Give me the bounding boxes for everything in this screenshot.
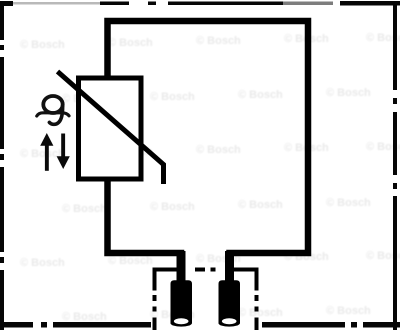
svg-text:© Bosch: © Bosch — [62, 311, 107, 323]
svg-text:© Bosch: © Bosch — [196, 144, 241, 156]
svg-text:© Bosch: © Bosch — [108, 37, 153, 49]
svg-text:© Bosch: © Bosch — [196, 35, 241, 47]
svg-text:© Bosch: © Bosch — [326, 305, 371, 317]
svg-text:© Bosch: © Bosch — [20, 257, 65, 269]
svg-text:© Bosch: © Bosch — [238, 307, 283, 319]
svg-text:© Bosch: © Bosch — [326, 87, 371, 99]
svg-text:© Bosch: © Bosch — [62, 203, 107, 215]
svg-text:© Bosch: © Bosch — [238, 89, 283, 101]
svg-text:© Bosch: © Bosch — [150, 91, 195, 103]
svg-text:© Bosch: © Bosch — [108, 255, 153, 267]
svg-text:© Bosch: © Bosch — [238, 199, 283, 211]
svg-text:© Bosch: © Bosch — [326, 197, 371, 209]
svg-text:© Bosch: © Bosch — [20, 39, 65, 51]
svg-text:© Bosch: © Bosch — [150, 201, 195, 213]
